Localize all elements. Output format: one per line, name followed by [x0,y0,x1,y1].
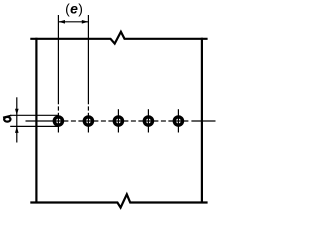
svg-text:(e): (e) [65,1,83,17]
